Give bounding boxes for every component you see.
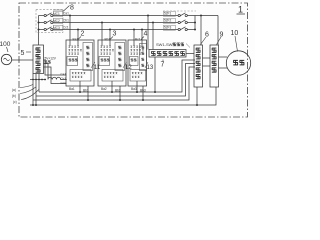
node dots on bottom bus — [32, 104, 34, 106]
node dot bus1 x70 — [69, 15, 71, 17]
block2 bottom drops — [79, 81, 81, 92]
bus line c (bottom phase bus) — [53, 29, 178, 31]
svg-text:SW1-SW3: SW1-SW3 — [156, 42, 175, 47]
block 6 inverter — [194, 45, 203, 87]
left bottom verticals — [32, 80, 34, 106]
block3 inner: right terminal column — [115, 43, 125, 71]
block2 inner column vertical text — [86, 46, 89, 49]
switch contact 52F1 — [178, 13, 195, 17]
svg-text:5: 5 — [21, 50, 25, 57]
svg-text:(a): (a) — [12, 88, 16, 92]
block 3 battery unit — [98, 40, 126, 86]
right switch label boxes — [163, 11, 175, 16]
svg-text:1: 1 — [238, 5, 243, 15]
bottom box text x71.5 — [72, 72, 74, 74]
bus y98.5 from controller7 bottom — [33, 67, 195, 100]
block3 inner: bottom box — [102, 70, 123, 82]
node dot bus3 x78 — [77, 29, 79, 31]
bus line b (middle phase bus) — [53, 22, 178, 24]
wire drop into block6 — [200, 16, 202, 46]
AC source circle 100 — [1, 54, 11, 64]
svg-text:12: 12 — [125, 65, 132, 71]
block 5 power supply — [33, 45, 44, 74]
node bus tap — [38, 29, 40, 31]
svg-text:Bb2: Bb2 — [115, 89, 121, 93]
load label text — [233, 60, 238, 64]
wire drop to block3 — [109, 30, 111, 47]
switch contact 52F3 — [178, 27, 195, 31]
leader to label 8 — [64, 6, 70, 12]
svg-text:Cb1: Cb1 — [63, 19, 69, 23]
node dot drop to block6 — [200, 15, 202, 17]
svg-text:52F1: 52F1 — [164, 12, 171, 16]
switch label boxes — [53, 11, 63, 16]
svg-text:(c): (c) — [13, 100, 17, 104]
block2 inner: bottom box — [70, 70, 91, 82]
curved leaders for bottom-left labels — [20, 85, 39, 100]
block2 inner: right terminal column — [83, 43, 93, 71]
mini bus below block5 — [30, 79, 46, 81]
leader label 2 — [78, 37, 81, 40]
svg-text:Bb1: Bb1 — [83, 89, 89, 93]
svg-text:(b): (b) — [12, 94, 16, 98]
bottom box text x103.5 — [104, 72, 106, 74]
block inner text rows x130 — [130, 46, 132, 48]
svg-text:MC1: MC1 — [53, 12, 60, 16]
svg-text:2: 2 — [81, 31, 85, 38]
svg-text:Ba1: Ba1 — [69, 87, 75, 91]
control line L95 from controller7 bottom — [36, 64, 195, 97]
block5 right side wire 3 to block2 — [44, 67, 67, 84]
control line L92 from controller7 bottom — [39, 60, 195, 92]
node dots on mini bus — [32, 79, 34, 81]
leader 5 — [26, 51, 31, 53]
block4 inner: right terminal column — [140, 44, 147, 71]
wire drop to block2 — [77, 30, 79, 47]
small box text x100.6 — [101, 59, 103, 61]
node dot collector — [194, 22, 196, 24]
svg-text:9: 9 — [220, 32, 224, 39]
svg-text:Bb1: Bb1 — [105, 38, 111, 42]
leader 100 — [7, 47, 9, 52]
wire drop into block9 — [217, 16, 219, 46]
block5 right side wire 2 with hops to block2 — [44, 64, 67, 80]
svg-text:10: 10 — [231, 30, 239, 37]
wire to blocks 6 and 9 tops — [195, 15, 218, 17]
leader label 4 — [141, 37, 144, 40]
switch contact MC3 — [39, 27, 53, 31]
svg-text:5V+12V: 5V+12V — [45, 57, 57, 61]
wire block9 to load lower — [219, 67, 228, 69]
switch contact MC2 — [39, 20, 53, 24]
svg-text:Cc1: Cc1 — [63, 26, 69, 30]
svg-text:Ba2: Ba2 — [101, 87, 107, 91]
block4 inner: left small box — [130, 57, 139, 66]
svg-text:Ca1: Ca1 — [63, 12, 69, 16]
dashed marker above right switch group — [163, 10, 196, 12]
block4 inner: bottom box — [130, 70, 146, 82]
svg-text:Ba3: Ba3 — [131, 87, 137, 91]
svg-text:MC3: MC3 — [53, 26, 60, 30]
block inner text rows x68 — [68, 46, 70, 48]
wire AC source to block 5 — [12, 59, 33, 61]
wire block9 to load upper — [219, 56, 228, 58]
block 4 battery unit — [128, 40, 147, 86]
leader label 7 — [162, 60, 164, 62]
wire block5 top to switch column — [38, 16, 40, 46]
wire block6 bottom drop — [196, 87, 198, 105]
block3 inner column vertical text — [118, 46, 121, 49]
node dot bus3 x134 — [133, 29, 135, 31]
small box text x130.6 — [131, 59, 133, 61]
svg-text:100: 100 — [0, 41, 11, 48]
box8 corner accent — [53, 10, 63, 14]
wire block6-block9 connector top — [203, 57, 211, 59]
wire drop to block2 — [69, 16, 71, 47]
node bus1 tap — [38, 22, 40, 24]
svg-text:52F3: 52F3 — [164, 26, 171, 30]
wire drop to block4 — [141, 30, 143, 47]
block4 bottom drops — [136, 81, 138, 92]
leader label 10 — [235, 36, 238, 52]
node dot collector — [194, 29, 196, 31]
wire block6-block9 connector bottom — [203, 65, 211, 67]
load circle 10 — [226, 51, 250, 75]
leader label 6 — [201, 37, 207, 45]
block9 vertical label text — [212, 48, 217, 52]
small box text x68.6 — [69, 59, 71, 61]
dashed box 8 around switch group — [36, 10, 63, 33]
leader label 12 — [123, 62, 127, 68]
node dot bus1 x148 — [147, 15, 149, 17]
block2 inner: left small box — [67, 57, 78, 66]
node dot bus3 x142 — [141, 29, 143, 31]
block 2 battery unit — [66, 40, 94, 86]
block4 inner column vertical text — [142, 46, 145, 48]
svg-text:Bc1: Bc1 — [135, 38, 141, 42]
controller drop x155 — [154, 57, 156, 92]
svg-text:7: 7 — [161, 62, 165, 69]
leader label 3 — [110, 37, 113, 40]
svg-text:13: 13 — [147, 65, 154, 71]
svg-text:52F2: 52F2 — [164, 19, 171, 23]
svg-text:Cb1: Cb1 — [61, 77, 67, 81]
wire drop to controller 7 — [152, 23, 154, 50]
leader label 9 — [217, 37, 222, 45]
wire drop to block3 — [101, 23, 103, 47]
node dot bus2 x153 — [152, 22, 154, 24]
wire collector of right switches — [194, 16, 196, 30]
bottom bus y104.5 to block9 — [30, 87, 216, 105]
leader label 11 — [91, 62, 95, 68]
svg-text:3: 3 — [113, 31, 117, 38]
switch contact MC1 — [39, 13, 53, 17]
leader label 13 — [145, 62, 148, 68]
wire drop to block4 — [133, 30, 135, 47]
svg-text:11: 11 — [94, 65, 101, 71]
controller 7 label text — [151, 52, 155, 56]
node dot — [196, 104, 198, 106]
block5 bottom stubs — [32, 74, 34, 80]
block6 vertical label text — [196, 48, 201, 52]
svg-text:6: 6 — [205, 32, 209, 39]
wire box7 to block6 — [186, 53, 194, 55]
node dots on L92 — [79, 91, 81, 93]
block3 bottom drops — [111, 81, 113, 92]
controller box 7 — [149, 50, 186, 58]
bus line a (top phase bus) — [53, 15, 178, 17]
svg-text:Cc1: Cc1 — [61, 81, 67, 85]
svg-text:Ba1: Ba1 — [73, 38, 79, 42]
svg-text:MC2: MC2 — [53, 19, 60, 23]
svg-text:8: 8 — [70, 5, 74, 12]
node dot bus2 x102 — [101, 22, 103, 24]
switch contact 52F2 — [178, 20, 195, 24]
block 9 output unit — [210, 45, 219, 87]
bottom box text x131.5 — [132, 72, 134, 74]
block5 vertical label text — [36, 48, 41, 52]
block5 right side wire 1 to block2 — [44, 60, 67, 75]
system boundary dash-dot box 1 — [19, 3, 248, 117]
wire drop to controller 7 — [147, 16, 149, 50]
svg-text:Ca1: Ca1 — [61, 72, 67, 76]
node dot bus3 x110 — [109, 29, 111, 31]
node dots on bus98.5 — [87, 99, 89, 101]
svg-text:4: 4 — [144, 31, 148, 38]
block inner text rows x100 — [100, 46, 102, 48]
svg-text:Bb3: Bb3 — [140, 89, 146, 93]
block3 inner: left small box — [99, 57, 110, 66]
